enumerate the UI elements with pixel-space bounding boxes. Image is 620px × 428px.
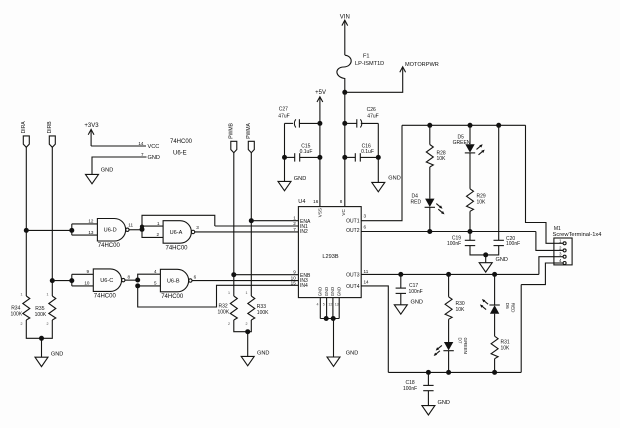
svg-text:74HC00: 74HC00 xyxy=(98,243,121,249)
resistor R31 10K xyxy=(491,336,510,372)
svg-text:GND: GND xyxy=(294,176,306,182)
node DIRA / U6-D input xyxy=(24,228,29,233)
wire OUT4 pin 14 xyxy=(361,286,388,373)
svg-text:U6-C: U6-C xyxy=(100,278,113,284)
svg-text:2: 2 xyxy=(228,322,230,326)
node MOTORPWR junction xyxy=(342,90,347,95)
wire MOTORPWR rail to U4 VC pin 8 xyxy=(344,92,346,206)
svg-text:F1: F1 xyxy=(363,54,370,60)
svg-text:1: 1 xyxy=(246,291,248,295)
svg-text:2: 2 xyxy=(21,322,23,326)
node PWMB / ENB xyxy=(231,272,236,277)
svg-text:16: 16 xyxy=(313,199,319,204)
nand gate U6-C xyxy=(93,269,130,300)
svg-text:4: 4 xyxy=(317,302,319,306)
ground C19 C20 xyxy=(479,255,508,272)
svg-text:9: 9 xyxy=(293,270,296,275)
wire C26 down leg xyxy=(377,123,379,182)
wire ENA from PWMA xyxy=(251,220,298,222)
svg-text:GND: GND xyxy=(337,287,342,296)
svg-text:+3V3: +3V3 xyxy=(84,123,99,129)
svg-text:7: 7 xyxy=(141,152,144,157)
svg-text:47uF: 47uF xyxy=(278,113,289,119)
svg-text:GND: GND xyxy=(101,168,113,174)
node on MOTORPWR rail at C16 xyxy=(342,155,347,160)
svg-text:0.1uF: 0.1uF xyxy=(361,149,374,155)
svg-text:15: 15 xyxy=(291,280,297,285)
svg-text:5: 5 xyxy=(154,281,157,286)
led D4 RED xyxy=(411,193,445,231)
svg-text:C18: C18 xyxy=(406,380,415,386)
connector pin DIRB xyxy=(47,121,55,148)
nand gate U6-B xyxy=(160,269,196,300)
wire OUT1 rail xyxy=(402,124,526,126)
wire U6-E VCC pin 14 xyxy=(91,145,146,147)
svg-text:10K: 10K xyxy=(437,156,447,162)
wire PWMA vertical xyxy=(250,153,252,296)
capacitor C27 47uF xyxy=(278,106,320,127)
svg-text:1: 1 xyxy=(228,291,230,295)
svg-text:47uF: 47uF xyxy=(367,113,378,119)
svg-text:14: 14 xyxy=(364,279,370,284)
fuse F1 xyxy=(337,54,384,79)
resistor R29 10K xyxy=(467,189,487,232)
svg-text:12: 12 xyxy=(88,219,94,224)
wire U6-A inputs xyxy=(142,221,163,238)
ground U4 xyxy=(327,350,358,366)
svg-text:ScrewTerminal-1x4: ScrewTerminal-1x4 xyxy=(553,232,602,238)
svg-text:GREEN: GREEN xyxy=(453,140,471,146)
svg-text:100K: 100K xyxy=(35,312,47,318)
wire IN1 from loop xyxy=(215,225,299,227)
svg-text:8: 8 xyxy=(128,274,131,279)
svg-text:1: 1 xyxy=(47,292,49,296)
node rail R28 xyxy=(427,123,432,128)
wire U6-C output xyxy=(125,279,138,281)
wire U6-C inputs xyxy=(52,269,93,286)
capacitor C17 100nF xyxy=(396,274,423,304)
svg-text:2: 2 xyxy=(246,322,248,326)
svg-text:1: 1 xyxy=(21,292,23,296)
svg-text:14: 14 xyxy=(138,141,144,146)
resistor R35 100K xyxy=(35,292,56,326)
node U4 gnd a xyxy=(324,316,329,321)
svg-text:13: 13 xyxy=(335,302,339,306)
wire U6-E GND pin 7 xyxy=(92,157,147,174)
capacitor C15 0.1uF xyxy=(285,143,320,161)
svg-text:100nF: 100nF xyxy=(506,241,520,247)
svg-text:GND: GND xyxy=(438,400,450,406)
svg-text:DIRA: DIRA xyxy=(21,121,27,134)
capacitor C16 0.1uF xyxy=(345,143,379,161)
svg-text:100K: 100K xyxy=(218,309,230,315)
wire C27 down leg xyxy=(284,123,286,181)
ground R34 R35 xyxy=(35,351,63,366)
svg-text:2: 2 xyxy=(47,322,49,326)
net flag MOTORPWR xyxy=(345,62,439,92)
svg-text:100nF: 100nF xyxy=(403,386,417,392)
wire U6-D output xyxy=(129,229,142,231)
node OUT2 R29 C19 xyxy=(468,229,473,234)
capacitor C18 100nF xyxy=(403,372,434,405)
svg-text:+5V: +5V xyxy=(315,90,326,96)
node OUT2 D4 xyxy=(427,229,432,234)
wire U6-B inputs xyxy=(138,269,161,286)
wire feedback loop over U6-A to IN1 xyxy=(142,215,215,229)
resistor R32 100K xyxy=(218,291,238,326)
node U6-D input xyxy=(69,228,74,233)
svg-text:0.1uF: 0.1uF xyxy=(300,149,313,155)
wire OUT1 pin 3 xyxy=(361,125,402,220)
wire DIRB vertical xyxy=(51,147,53,296)
svg-text:74HC00: 74HC00 xyxy=(165,245,188,251)
ground C18 xyxy=(422,400,450,415)
ground U6-E xyxy=(86,168,114,184)
svg-text:OUT2: OUT2 xyxy=(346,228,360,234)
svg-text:6: 6 xyxy=(194,274,197,279)
svg-text:DIRB: DIRB xyxy=(47,121,53,134)
svg-text:PWMA: PWMA xyxy=(246,122,252,138)
svg-text:U6-A: U6-A xyxy=(170,230,183,236)
node U6-D output xyxy=(140,227,145,232)
svg-text:M1: M1 xyxy=(554,226,561,232)
node PWMA / ENA xyxy=(249,218,254,223)
wire PWMB vertical xyxy=(233,153,235,296)
svg-text:GND: GND xyxy=(318,287,323,296)
screw terminal M1 xyxy=(553,226,602,265)
ground C26/C16 xyxy=(372,176,401,192)
svg-text:IN2: IN2 xyxy=(300,229,308,235)
svg-text:OUT4: OUT4 xyxy=(346,284,360,290)
node C27/C15 xyxy=(282,155,287,160)
svg-text:74HC00: 74HC00 xyxy=(170,139,193,145)
node rail C20 xyxy=(496,123,501,128)
node U4 gnd b xyxy=(331,316,336,321)
node U6-C output upper xyxy=(135,278,140,283)
svg-text:GND: GND xyxy=(411,299,423,305)
wire U6-A output to IN2 xyxy=(195,231,299,233)
svg-text:RED: RED xyxy=(411,199,422,205)
svg-text:U4: U4 xyxy=(298,199,305,205)
led D6 RED xyxy=(480,274,515,336)
svg-text:C27: C27 xyxy=(279,106,288,112)
svg-text:U6-E: U6-E xyxy=(173,151,187,157)
svg-text:VCC: VCC xyxy=(148,144,160,150)
wire OUT4 bottom rail xyxy=(388,371,521,373)
node OUT3 D6 xyxy=(492,272,497,277)
capacitor C20 100nF xyxy=(486,125,520,255)
node R34 R35 gnd xyxy=(39,336,44,341)
svg-text:4: 4 xyxy=(154,269,157,274)
svg-text:7: 7 xyxy=(293,227,296,232)
svg-text:GND: GND xyxy=(324,287,329,296)
svg-text:10K: 10K xyxy=(501,346,511,352)
power flag +3V3 xyxy=(84,123,99,146)
svg-text:11: 11 xyxy=(364,269,369,274)
wire fuse to junction xyxy=(344,78,346,92)
svg-text:1: 1 xyxy=(157,221,160,226)
svg-text:6: 6 xyxy=(364,224,367,229)
svg-text:2: 2 xyxy=(156,232,159,237)
svg-text:100K: 100K xyxy=(11,312,23,318)
svg-text:GND: GND xyxy=(346,350,358,356)
svg-text:GREEN: GREEN xyxy=(463,338,468,354)
led D5 GREEN xyxy=(453,125,485,189)
wire DIRA vertical xyxy=(25,147,27,296)
svg-text:GND: GND xyxy=(496,257,508,263)
node C26/C16 xyxy=(376,155,381,160)
svg-text:MOTORPWR: MOTORPWR xyxy=(405,62,439,68)
wire OUT2 pin 6 xyxy=(361,231,536,233)
svg-text:10K: 10K xyxy=(456,307,466,313)
led D7 GREEN xyxy=(434,338,468,373)
svg-text:5: 5 xyxy=(323,302,325,306)
ground C17 xyxy=(394,299,423,314)
capacitor C26 47uF xyxy=(345,107,379,128)
node rail C18 xyxy=(426,370,431,375)
connector pin PWMA xyxy=(246,122,254,152)
svg-text:13: 13 xyxy=(88,230,94,235)
svg-text:12: 12 xyxy=(328,302,332,306)
svg-text:VC: VC xyxy=(341,209,346,216)
svg-text:GND: GND xyxy=(330,287,335,296)
wire ENB from PWMB xyxy=(234,274,299,276)
svg-text:RED: RED xyxy=(510,303,515,313)
ground C27/C15 xyxy=(278,176,306,191)
node R32 R33 gnd xyxy=(245,329,250,334)
svg-text:GND: GND xyxy=(148,155,160,161)
node U6-C output lower xyxy=(135,283,140,288)
wire OUT2 to M1 pin 2 xyxy=(536,232,554,251)
node OUT3 C17 xyxy=(398,272,403,277)
node on +5V rail at C27 xyxy=(317,121,322,126)
wire OUT3 to M1 pin 3 xyxy=(539,257,554,275)
svg-text:GND: GND xyxy=(257,350,269,356)
wire OUT4 to M1 pin 4 xyxy=(521,263,554,285)
node U6-C input xyxy=(69,278,74,283)
svg-text:74HC00: 74HC00 xyxy=(94,293,117,299)
resistor R30 10K xyxy=(445,274,465,342)
svg-text:VSS: VSS xyxy=(317,208,322,217)
svg-text:IN4: IN4 xyxy=(300,283,308,289)
node rail R31 xyxy=(492,370,497,375)
power flag +5V xyxy=(315,90,326,206)
wire OUT4 rail up to M1 xyxy=(520,285,522,373)
node rail D7 xyxy=(446,370,451,375)
svg-text:3: 3 xyxy=(196,225,199,230)
resistor R28 10K xyxy=(426,125,446,198)
nand gate U6-D xyxy=(97,219,133,250)
wire R32 R33 to ground xyxy=(234,320,252,356)
node OUT3 R30 xyxy=(446,272,451,277)
node on +5V rail at C15 xyxy=(317,155,322,160)
svg-text:10: 10 xyxy=(84,281,90,286)
svg-text:L293B: L293B xyxy=(322,254,338,260)
node on MOTORPWR rail at C26 xyxy=(342,121,347,126)
svg-text:U6-B: U6-B xyxy=(167,279,180,285)
wire U6-D inputs xyxy=(26,219,97,235)
svg-text:100nF: 100nF xyxy=(447,241,461,247)
svg-text:74HC00: 74HC00 xyxy=(161,294,184,300)
wire U6-B output to IN3 xyxy=(192,280,298,282)
svg-text:C26: C26 xyxy=(367,107,376,113)
svg-text:D6: D6 xyxy=(505,303,510,309)
ground R32 R33 xyxy=(241,350,269,365)
svg-text:LP-ISMT1D: LP-ISMT1D xyxy=(355,61,384,67)
svg-text:U6-D: U6-D xyxy=(104,228,117,234)
svg-text:100K: 100K xyxy=(257,310,269,316)
capacitor C19 100nF xyxy=(447,232,486,255)
svg-text:OUT1: OUT1 xyxy=(346,219,360,225)
wire rail to M1 pin 1 xyxy=(526,125,554,243)
wire OUT3 pin 11 xyxy=(361,273,539,275)
svg-text:OUT3: OUT3 xyxy=(346,273,360,279)
ic U4 L293B xyxy=(291,199,369,307)
svg-text:1: 1 xyxy=(293,216,296,221)
svg-text:9: 9 xyxy=(86,269,89,274)
node rail D5 xyxy=(468,123,473,128)
svg-text:10K: 10K xyxy=(477,199,487,205)
svg-text:11: 11 xyxy=(128,223,133,228)
resistor R34 100K xyxy=(11,292,30,326)
svg-text:8: 8 xyxy=(340,199,343,204)
svg-text:PWMB: PWMB xyxy=(228,122,234,138)
connector pin PWMB xyxy=(228,122,236,152)
wire U4 gnd pins 4 5 12 13 xyxy=(320,298,339,319)
node DIRB / U6-C input xyxy=(50,278,55,283)
power flag VIN xyxy=(340,15,350,55)
svg-text:3: 3 xyxy=(364,214,367,219)
svg-text:GND: GND xyxy=(51,351,63,357)
svg-text:GND: GND xyxy=(388,176,400,182)
nand gate U6-A xyxy=(163,221,199,252)
wire U4 gnd down xyxy=(333,319,335,358)
node C19 C20 gnd xyxy=(483,252,488,257)
svg-text:D7: D7 xyxy=(457,338,462,344)
svg-text:2: 2 xyxy=(293,221,296,226)
wire R34 R35 to ground xyxy=(26,320,52,357)
svg-text:100nF: 100nF xyxy=(409,289,423,295)
connector pin DIRA xyxy=(21,121,29,148)
wire feedback loop under U6-B to IN4 xyxy=(138,285,299,307)
resistor R33 100K xyxy=(246,291,270,326)
